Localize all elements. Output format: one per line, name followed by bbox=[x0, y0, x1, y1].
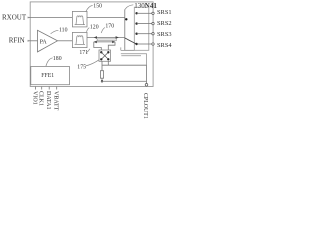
svg-text:180: 180 bbox=[53, 56, 62, 62]
svg-text:PA: PA bbox=[40, 40, 48, 46]
switch crossbar 175 box bbox=[99, 50, 111, 61]
switch arm bbox=[125, 38, 136, 44]
coupler coupled-line rectangle bbox=[97, 39, 116, 41]
junction dot on ground rail bbox=[101, 80, 103, 82]
svg-text:RFIN: RFIN bbox=[9, 37, 25, 45]
throw contact dot 1 bbox=[135, 12, 137, 14]
throw contact dot 2 bbox=[135, 22, 137, 24]
wire throw4 to SRS4 pin bbox=[137, 43, 152, 45]
resistor termination bbox=[100, 71, 103, 79]
svg-text:150: 150 bbox=[93, 3, 102, 9]
svg-text:SRS1: SRS1 bbox=[157, 9, 172, 16]
pin stub VIO1 bbox=[35, 87, 37, 90]
wire RFIN pin stub bbox=[28, 40, 30, 42]
svg-text:SRS3: SRS3 bbox=[157, 31, 172, 38]
svg-text:DATA1: DATA1 bbox=[45, 91, 51, 110]
svg-text:120: 120 bbox=[90, 24, 99, 30]
wire RXOUT pin stub bbox=[28, 17, 30, 19]
svg-text:FFE1: FFE1 bbox=[41, 73, 54, 79]
svg-text:SRS4: SRS4 bbox=[157, 42, 172, 49]
filter TX symbol bbox=[75, 36, 85, 45]
coupler sub-line with arrows bbox=[94, 41, 115, 43]
wire PA output to TX filter bbox=[58, 40, 73, 42]
svg-text:130N41: 130N41 bbox=[134, 2, 157, 10]
switch box 130 bbox=[134, 7, 149, 50]
pin circle SRS2 bbox=[152, 22, 154, 24]
wire throw2 to SRS2 pin bbox=[137, 23, 152, 25]
wire node to switch box bottom bbox=[125, 49, 135, 51]
wire RFIN to PA input bbox=[30, 40, 37, 42]
wire crossbar to CPLOUT run bbox=[102, 61, 147, 83]
junction dot RX line bbox=[125, 18, 127, 20]
wire throw3 to SRS3 pin bbox=[137, 33, 152, 35]
wire sub-line right end to switch box bbox=[108, 42, 115, 50]
pin circle SRS4 bbox=[152, 43, 154, 45]
svg-text:CPLOUT1: CPLOUT1 bbox=[142, 93, 148, 119]
throw contact dot 4 bbox=[135, 43, 137, 45]
amplifier PA 110 bbox=[38, 30, 58, 52]
svg-text:CLK1: CLK1 bbox=[38, 91, 44, 106]
wire RX filter to node bbox=[87, 17, 125, 19]
pin circle SRS1 bbox=[152, 12, 154, 14]
filter RX 150 box bbox=[72, 11, 87, 27]
filter TX 120 box bbox=[72, 32, 87, 47]
controller FFE1 box bbox=[31, 67, 70, 85]
wire sub-line left end to switch box bbox=[94, 42, 102, 50]
wire throw1 to SRS1 pin bbox=[137, 12, 152, 14]
wire TX filter to antenna node main line bbox=[87, 37, 125, 39]
pin circle SRS3 bbox=[152, 33, 154, 35]
pin circle CPLOUT bbox=[145, 84, 148, 87]
svg-text:VBATT: VBATT bbox=[53, 91, 59, 111]
svg-text:170: 170 bbox=[105, 23, 114, 29]
throw contact dot 3 bbox=[135, 33, 137, 35]
filter RX symbol bbox=[75, 16, 85, 25]
coupler 170 main-line arrow right bbox=[116, 36, 119, 39]
module outer box bbox=[30, 2, 153, 87]
coupler 170 main-line arrow left bbox=[94, 36, 97, 39]
pin stub CLK1 bbox=[41, 87, 43, 90]
svg-text:110: 110 bbox=[59, 27, 68, 33]
ground rail bbox=[101, 80, 147, 82]
wire RXOUT to RX filter bbox=[30, 17, 72, 19]
wire crossbar to termination resistor bbox=[101, 61, 103, 70]
wire stub y54 bbox=[121, 47, 147, 65]
pin stub VBATT bbox=[56, 87, 58, 90]
crossbar terminals dots bbox=[100, 51, 102, 53]
wire resistor to ground rail bbox=[101, 78, 103, 81]
pin stub DATA1 bbox=[48, 87, 50, 90]
svg-text:171: 171 bbox=[79, 50, 88, 56]
crossbar X wires bbox=[101, 52, 108, 59]
svg-text:RXOUT: RXOUT bbox=[2, 13, 27, 21]
svg-text:175: 175 bbox=[77, 65, 86, 71]
svg-text:SRS2: SRS2 bbox=[157, 20, 172, 27]
node line N41 vertical bbox=[124, 9, 126, 50]
svg-text:VIO1: VIO1 bbox=[32, 91, 38, 105]
